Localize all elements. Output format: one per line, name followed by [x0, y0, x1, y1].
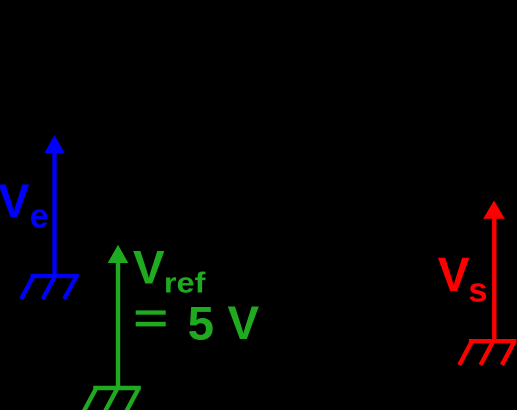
node Ve label: [0, 174, 49, 236]
voltage arrow Vref (reference voltage, green): [108, 245, 129, 388]
node Vref label: [133, 242, 206, 300]
svg-text:s: s: [468, 271, 487, 309]
voltage arrow Ve (input voltage, blue): [44, 135, 64, 276]
svg-text:V: V: [438, 249, 470, 302]
node Vs label: [438, 249, 488, 309]
svg-text:e: e: [30, 198, 49, 236]
ground (Vref, green chassis ground): [84, 388, 141, 410]
ground (Ve, blue chassis ground): [21, 276, 79, 299]
value label "= 5 V" for Vref: [136, 297, 260, 351]
svg-text:V: V: [133, 242, 165, 295]
svg-text:5: 5: [188, 298, 214, 351]
ground (Vs, red chassis ground): [459, 341, 516, 365]
svg-text:V: V: [0, 174, 30, 227]
svg-text:V: V: [228, 297, 260, 350]
svg-text:ref: ref: [164, 268, 206, 300]
voltage arrow Vs (output voltage, red): [483, 201, 505, 342]
